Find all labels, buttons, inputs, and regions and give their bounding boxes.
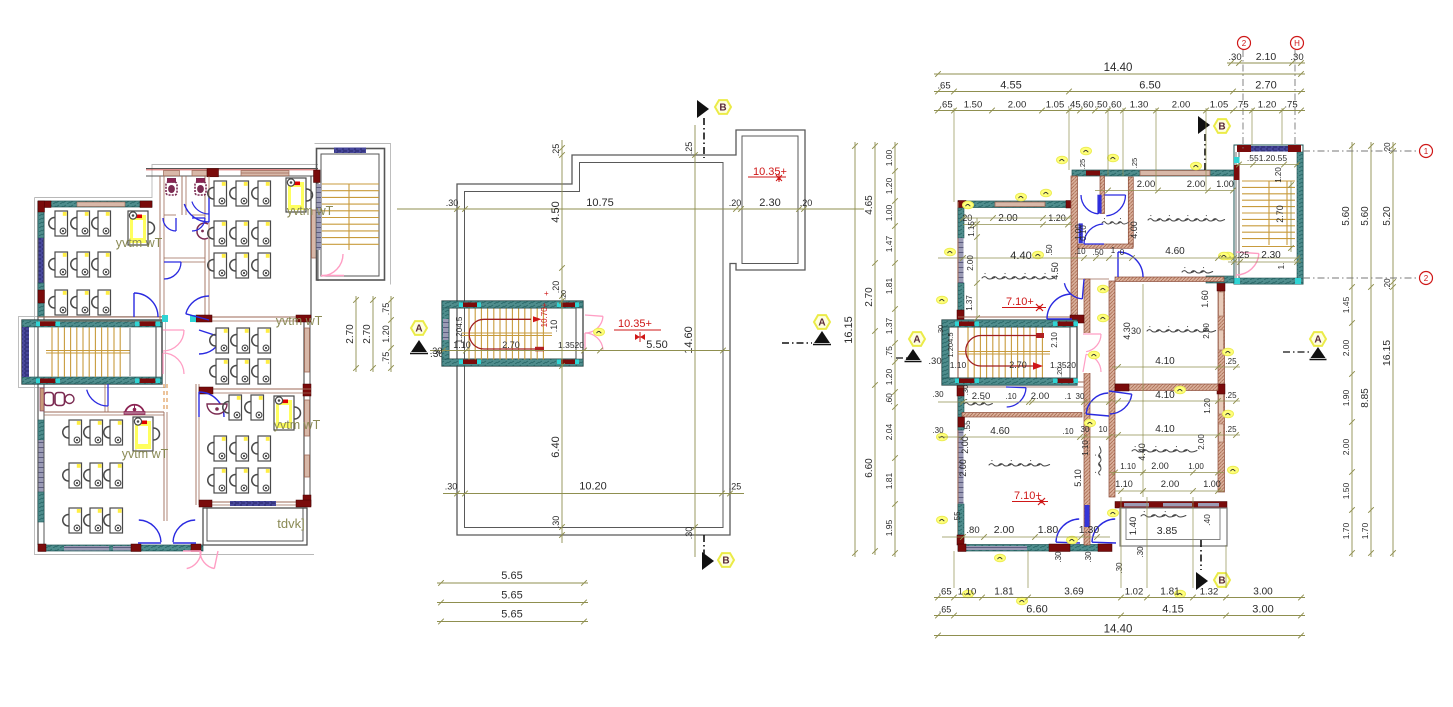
desk: room D teacher desk (274, 396, 301, 430)
svg-text:7.10+: 7.10+ (1006, 296, 1034, 308)
door: top-right room door (1118, 252, 1143, 277)
svg-text:.10: .10 (1062, 427, 1074, 436)
door: room D door (199, 392, 224, 417)
door: room B lower door (186, 296, 209, 314)
dim: left plan 2.70 chain 2 (372, 296, 374, 372)
svg-text:.40: .40 (1202, 514, 1212, 526)
svg-text:.55: .55 (953, 511, 962, 523)
svg-text:6.40: 6.40 (550, 436, 562, 457)
svg-text:6.60: 6.60 (1026, 604, 1047, 616)
svg-text:2.70: 2.70 (502, 340, 520, 350)
svg-text:2.70: 2.70 (345, 324, 356, 344)
wall: right plan top-left room top wall (958, 201, 1074, 208)
svg-text:.30: .30 (430, 346, 443, 356)
svg-text:1.3520: 1.3520 (558, 340, 584, 350)
label: bathroom arabic (1102, 219, 1128, 224)
fixture: wash basin (197, 223, 208, 239)
svg-text:1.10: 1.10 (1115, 479, 1133, 489)
svg-text:.45: .45 (1067, 100, 1080, 111)
svg-text:.30: .30 (936, 325, 945, 335)
svg-text:H: H (1294, 39, 1300, 48)
svg-text:.50: .50 (1045, 244, 1054, 256)
svg-text:1.: 1. (1277, 263, 1286, 270)
svg-text:0: 0 (1120, 248, 1125, 257)
svg-text:2: 2 (1424, 274, 1429, 283)
desk: room B teacher desk (286, 178, 313, 212)
svg-text:.65: .65 (939, 605, 952, 615)
svg-text:10.35+: 10.35+ (753, 166, 787, 178)
desk: room A teacher desk (128, 211, 155, 245)
svg-text:1.20: 1.20 (1203, 398, 1212, 414)
door: bottom-right room door (1110, 394, 1132, 414)
svg-text:1: 1 (1424, 147, 1429, 156)
svg-text:.30: .30 (1115, 562, 1124, 574)
svg-text:yvtm wT: yvtm wT (122, 447, 169, 461)
desks: room D (223, 395, 242, 420)
fixture: WC lobby fittings (44, 393, 54, 406)
svg-text:2.00: 2.00 (1172, 100, 1191, 111)
label: room bottom-left arabic (989, 461, 1050, 466)
svg-text:.20: .20 (729, 198, 742, 208)
svg-text:16.15: 16.15 (843, 316, 855, 344)
wall: bathroom right wall (1128, 177, 1133, 247)
wall: bathroom bottom wall (1078, 244, 1133, 248)
svg-text:.30: .30 (932, 426, 944, 435)
svg-text:2.00: 2.00 (1151, 461, 1169, 471)
svg-text:1.20: 1.20 (1274, 167, 1283, 183)
desks: room E grid 3x3 (63, 420, 82, 445)
svg-text:1.20: 1.20 (884, 368, 894, 385)
svg-text:1.00: 1.00 (1188, 462, 1204, 471)
svg-text:.65: .65 (938, 587, 951, 598)
dim: mid vertical x560 (561, 140, 563, 543)
svg-text:.75: .75 (1284, 100, 1297, 111)
wall: hallway wall y277-281 horizontal (1077, 278, 1109, 280)
wall: right plan bottom wall (958, 545, 1110, 552)
svg-text:2.00: 2.00 (1341, 438, 1351, 455)
door: WC stall doors (163, 218, 176, 231)
svg-text:1.95: 1.95 (884, 519, 894, 536)
svg-text:.60: .60 (1080, 100, 1093, 111)
svg-text:1.30: 1.30 (1079, 524, 1100, 536)
section marker A right side right plan (1310, 332, 1326, 346)
window: blue blocks bathroom (1079, 223, 1083, 243)
svg-text:.75: .75 (381, 303, 391, 316)
svg-text:1.45: 1.45 (1341, 296, 1351, 313)
door: stairwell pink door (322, 254, 343, 276)
svg-text:2.70: 2.70 (864, 287, 875, 307)
dim: left plan .75/1.20/.75 chain (390, 296, 392, 372)
svg-text:14.40: 14.40 (1104, 62, 1133, 74)
fixture: WC left (166, 179, 177, 196)
desks: room A grid 3x3 (49, 211, 68, 236)
svg-text:30: 30 (1081, 425, 1090, 434)
svg-text:1.00: 1.00 (1216, 179, 1234, 189)
roof top-right box inner (742, 136, 798, 264)
svg-text:.60: .60 (1108, 100, 1121, 111)
svg-text:14.60: 14.60 (683, 326, 695, 354)
svg-text:A: A (913, 335, 920, 346)
svg-text:.30: .30 (551, 516, 561, 529)
svg-text:.25: .25 (684, 142, 694, 155)
wall: stair bottom wall extension (958, 381, 1084, 383)
svg-text:1.60: 1.60 (1200, 290, 1210, 308)
wall: bottom-left room top wall (962, 413, 1082, 418)
svg-text:10.35+: 10.35+ (618, 318, 652, 330)
svg-text:2.00: 2.00 (1202, 323, 1211, 339)
dim: mid top horizontal .30/10.75/2.30 (397, 208, 864, 210)
svg-text:16.15: 16.15 (1381, 340, 1393, 366)
svg-text:2.00: 2.00 (1008, 100, 1027, 111)
dim: mid bottom horizontal 10.20 (443, 493, 744, 495)
stairs: red arrow right plan (966, 336, 1036, 367)
svg-text:.80: .80 (966, 525, 979, 536)
fixture: sink above room E wall (125, 405, 144, 413)
svg-text:1.00: 1.00 (884, 204, 894, 221)
svg-text:3.85: 3.85 (1157, 525, 1178, 537)
label: porch arabic (1141, 512, 1186, 517)
svg-text:1.05: 1.05 (1210, 100, 1229, 111)
svg-text:B: B (1218, 576, 1225, 587)
label: room top-right arabic (1148, 216, 1225, 221)
svg-text:.50: .50 (1092, 248, 1104, 257)
label: yellow tag near stair door (594, 328, 605, 336)
svg-text:.20: .20 (1383, 142, 1392, 154)
section marker B bottom mid plan (702, 552, 714, 570)
svg-text:1.50: 1.50 (964, 100, 983, 111)
wall: horizontal wall y318 across building (38, 316, 162, 318)
door: WC lobby door (87, 390, 108, 406)
svg-text:1.15: 1.15 (967, 221, 976, 237)
svg-text:2.10: 2.10 (1256, 51, 1277, 63)
svg-text:B: B (719, 103, 726, 114)
svg-text:yvtm wT: yvtm wT (274, 418, 321, 432)
svg-text:1.20: 1.20 (381, 325, 391, 343)
svg-text:.75: .75 (381, 352, 391, 365)
dim: right plan top 14.40 (934, 73, 1305, 75)
dim: stairwell TR inner dim line (1290, 181, 1292, 252)
svg-text:3.69: 3.69 (1064, 587, 1084, 598)
door: room A door (134, 293, 158, 317)
svg-text:1.80: 1.80 (1038, 524, 1059, 536)
svg-text:1.81: 1.81 (884, 277, 894, 294)
dim: mid vertical x695 (694, 125, 696, 557)
svg-text:5.20: 5.20 (1382, 206, 1393, 226)
svg-text:5.60: 5.60 (1341, 206, 1352, 226)
svg-text:10: 10 (1099, 425, 1108, 434)
svg-text:A: A (415, 324, 422, 335)
door: corridor bottom doors (139, 520, 161, 542)
svg-text:2.10: 2.10 (1050, 332, 1059, 348)
svg-text:1.70: 1.70 (1360, 522, 1370, 539)
svg-text:1.10: 1.10 (958, 587, 977, 598)
svg-text:2.00: 2.00 (966, 255, 975, 271)
svg-text:.30: .30 (961, 385, 970, 395)
wall: bath block left wall x1072 (1071, 176, 1078, 318)
svg-text:4.50: 4.50 (1050, 262, 1060, 280)
section marker B top right plan (1198, 116, 1210, 134)
section marker B top mid plan (697, 100, 709, 118)
door: room B double door at toilets (184, 204, 209, 222)
svg-text:1.81: 1.81 (884, 472, 894, 489)
svg-text:2.70: 2.70 (1255, 80, 1276, 92)
svg-text:2.50: 2.50 (972, 391, 991, 402)
svg-text:.30: .30 (1228, 52, 1241, 63)
svg-text:1.05: 1.05 (1046, 100, 1065, 111)
wall: porch top wall (199, 501, 311, 503)
door: below-stair bathroom door (1007, 388, 1026, 407)
svg-text:yvtm wT: yvtm wT (287, 204, 334, 218)
svg-text:2.00: 2.00 (1161, 479, 1180, 490)
dim: right plan top .30/2.10/.30 (1227, 62, 1305, 64)
section marker B bottom right plan (1200, 540, 1202, 570)
roof plan outline outer (457, 130, 805, 535)
svg-text:5.60: 5.60 (1360, 206, 1371, 226)
svg-text:4.00: 4.00 (1129, 221, 1139, 239)
svg-text:7.10+: 7.10+ (1014, 490, 1042, 502)
svg-text:.30: .30 (1290, 52, 1303, 63)
svg-text:2.70: 2.70 (362, 324, 373, 344)
extension lines right plan (953, 108, 955, 202)
svg-text:.551.20.55: .551.20.55 (1247, 153, 1287, 163)
svg-text:1.204.5: 1.204.5 (946, 332, 955, 357)
svg-text:.25: .25 (1225, 391, 1237, 400)
svg-text:.20: .20 (1057, 367, 1064, 377)
door: apartment entry pink door from stair (1236, 254, 1259, 275)
svg-text:.25: .25 (729, 482, 742, 492)
wall: bathroom divider (1100, 176, 1105, 214)
wall: right plan left exterior wall (957, 202, 959, 545)
svg-text:.65: .65 (939, 100, 952, 111)
svg-text:2.70: 2.70 (1009, 360, 1027, 370)
dim: right plan right chains (1351, 142, 1353, 557)
wall: right plan top-center wall teal (1072, 170, 1234, 176)
svg-text:.30: .30 (1136, 546, 1145, 558)
svg-text:2.00: 2.00 (958, 459, 968, 477)
svg-text:1.70: 1.70 (1341, 522, 1351, 539)
door: hallway door (1064, 283, 1082, 299)
svg-text:10.20: 10.20 (579, 481, 607, 493)
svg-text:4.10: 4.10 (1155, 390, 1175, 401)
stairwell left enclosure (22, 320, 162, 384)
svg-text:1.10: 1.10 (1081, 440, 1090, 456)
stairs: top-right treads (322, 183, 379, 185)
svg-text:.65: .65 (937, 81, 950, 92)
door: bathroom doors (1081, 195, 1098, 214)
yellow tags right plan (1057, 156, 1068, 164)
svg-text:1.20: 1.20 (884, 177, 894, 194)
svg-text:5.65: 5.65 (501, 570, 522, 582)
svg-text:+: + (544, 289, 549, 298)
svg-text:30: 30 (1131, 326, 1141, 336)
svg-text:3.00: 3.00 (1252, 604, 1273, 616)
dim: right plan top row2 (934, 91, 1305, 93)
wall: left exterior wall (37, 201, 39, 545)
svg-text:4.10: 4.10 (1155, 356, 1175, 367)
svg-text:4.15: 4.15 (1162, 604, 1183, 616)
svg-text:1.00: 1.00 (1074, 224, 1083, 240)
svg-text:.25: .25 (1225, 425, 1237, 434)
fixture: sink at room D wall (207, 404, 227, 414)
svg-text:2.00: 2.00 (1187, 179, 1206, 190)
svg-text:B: B (1218, 122, 1225, 133)
svg-text:5.65: 5.65 (501, 590, 522, 602)
wall: corridor walls (163, 412, 165, 521)
svg-text:2.00: 2.00 (1137, 179, 1156, 190)
svg-text:8.85: 8.85 (1360, 388, 1371, 408)
dim: right plan top row3 (934, 110, 1305, 112)
svg-text:.30: .30 (928, 356, 941, 367)
stairs: top-right treads right plan (1242, 180, 1295, 182)
svg-text:.30: .30 (684, 527, 694, 540)
door: mid stair pink double door (585, 316, 603, 333)
svg-text:4.40: 4.40 (1010, 250, 1031, 262)
svg-text:1.32: 1.32 (1200, 587, 1219, 598)
svg-text:6.50: 6.50 (1139, 80, 1160, 92)
door: right plan stair pink door (1082, 333, 1091, 373)
wall: left-room top wall (38, 201, 152, 207)
wall: entry lobby walls (1206, 276, 1234, 283)
roof plan outline inner (465, 163, 724, 528)
svg-text:.30: .30 (446, 198, 459, 208)
svg-text:1.90: 1.90 (1341, 389, 1351, 406)
svg-text:2.00: 2.00 (960, 436, 970, 454)
stairwell bottom-left right plan enclosure (942, 320, 1077, 385)
wall: corridor right wall x1109 (1109, 281, 1115, 497)
stairwell top-right right-plan (1234, 145, 1303, 284)
svg-text:.30: .30 (932, 390, 944, 399)
wall: room C/D divider (199, 388, 311, 390)
svg-text:.75: .75 (884, 346, 894, 358)
porch outline right plan (1120, 508, 1227, 546)
door: room C door (199, 337, 222, 354)
fixture: WC right (195, 179, 206, 196)
svg-text:1.204.5: 1.204.5 (455, 316, 464, 343)
svg-text:4.60: 4.60 (990, 426, 1010, 437)
section marker A left side right plan (909, 332, 925, 346)
stairs: left box treads (51, 328, 53, 378)
svg-text:2.04: 2.04 (884, 423, 894, 440)
wall: right wall of rooms B-D (310, 176, 312, 320)
section marker A mid plan (814, 315, 830, 329)
dim: right plan left chains (854, 142, 856, 557)
svg-text:A: A (1314, 335, 1321, 346)
svg-text:.25: .25 (551, 144, 561, 157)
svg-text:3.00: 3.00 (1253, 587, 1273, 598)
svg-text:1.81: 1.81 (1160, 587, 1180, 598)
svg-text:.10: .10 (549, 320, 559, 333)
wall: left rooms divider x1084 (1084, 279, 1090, 545)
svg-text:.30: .30 (445, 482, 458, 492)
wall: toilets block (159, 176, 161, 320)
svg-text:.25: .25 (1237, 250, 1250, 260)
svg-text:4.65: 4.65 (864, 195, 875, 215)
svg-text:2.30: 2.30 (1261, 250, 1281, 261)
svg-text:.25: .25 (1078, 159, 1087, 169)
svg-text:1.40: 1.40 (1128, 517, 1139, 536)
svg-text:2.00: 2.00 (1341, 339, 1351, 356)
grid circles top (1238, 37, 1251, 50)
stairs: mid treads (468, 309, 470, 360)
svg-text:5.65: 5.65 (501, 609, 522, 621)
svg-text:.20: .20 (1383, 278, 1392, 290)
svg-text:1.30: 1.30 (1130, 100, 1149, 111)
dim: right plan bottom row1 (934, 597, 1305, 599)
wall: main top wall (146, 168, 318, 170)
svg-text:.10: .10 (1074, 247, 1086, 256)
svg-text:10.75: 10.75 (586, 197, 614, 209)
svg-text:.50: .50 (1094, 100, 1107, 111)
label: corridor arabic vertical (1096, 447, 1101, 475)
stairs: bottom-left treads right plan (967, 328, 969, 378)
svg-text:1.00: 1.00 (884, 149, 894, 166)
svg-text:1.81: 1.81 (994, 587, 1014, 598)
dim: right plan bottom 14.40 (934, 635, 1305, 637)
svg-text:10.70+: 10.70+ (540, 302, 549, 327)
svg-text:.20: .20 (561, 290, 568, 300)
svg-text:.30: .30 (1084, 551, 1093, 563)
dim: mid 5.50 line (430, 350, 730, 352)
stairwell top-right enclosure (317, 149, 385, 281)
stairs: mid red up-arrow (469, 319, 536, 349)
svg-text:.10: .10 (1005, 392, 1017, 401)
svg-text:5.50: 5.50 (646, 339, 667, 351)
label: small bathroom below stair (964, 400, 992, 405)
door: bottom-left room door (1056, 519, 1079, 542)
svg-text:2.00: 2.00 (1197, 434, 1206, 450)
svg-text:5.10: 5.10 (1073, 469, 1083, 487)
dim: mid bottom 5.65 lines (437, 582, 588, 584)
svg-text:yvtm wT: yvtm wT (116, 236, 163, 250)
svg-text:2.70: 2.70 (1275, 205, 1285, 223)
svg-text:1.47: 1.47 (884, 235, 894, 252)
svg-text:2.00: 2.00 (994, 524, 1015, 536)
label: room top-left arabic (982, 274, 1055, 279)
svg-text:yvtm wT: yvtm wT (276, 314, 323, 328)
wall: right plan right exterior wall (1218, 281, 1225, 492)
svg-text:4.30: 4.30 (1122, 322, 1132, 340)
desks: room C grid 3x2 (210, 328, 229, 353)
wall: WC lobby divider (104, 384, 106, 412)
left plan: outer offset line (35, 198, 315, 555)
svg-text:6.60: 6.60 (864, 458, 875, 478)
svg-text:4.40: 4.40 (1137, 443, 1147, 461)
dim: interior dim line y258 (938, 257, 1301, 259)
svg-text:2.30: 2.30 (759, 197, 780, 209)
desk: room E teacher desk (133, 417, 160, 451)
grid circles right (1420, 145, 1433, 158)
wall: bottom exterior wall (38, 545, 203, 551)
svg-text:1.37: 1.37 (965, 295, 974, 311)
door: mid-right room door (1086, 393, 1108, 414)
svg-text:30: 30 (1076, 392, 1085, 401)
svg-text:1.10: 1.10 (950, 360, 967, 370)
wall: mid-right rooms divider y384 (1115, 384, 1218, 391)
dim: right plan bottom row2 (934, 615, 1305, 617)
svg-text:2.00: 2.00 (998, 213, 1018, 224)
svg-text:1.37: 1.37 (884, 317, 894, 334)
svg-text:1: 1 (1111, 246, 1116, 255)
desks: room B grid 3x3 (208, 181, 227, 206)
svg-text:.25: .25 (1225, 357, 1237, 366)
wall: top-left room bottom wall / stair top (958, 316, 1084, 318)
svg-text:.25: .25 (1130, 158, 1139, 168)
svg-text:tdvk]: tdvk] (277, 516, 304, 531)
svg-text:4.10: 4.10 (1155, 424, 1175, 435)
door: main entrance pink double door (187, 551, 201, 569)
svg-text:.20: .20 (800, 198, 813, 208)
svg-text:4.50: 4.50 (550, 201, 562, 222)
